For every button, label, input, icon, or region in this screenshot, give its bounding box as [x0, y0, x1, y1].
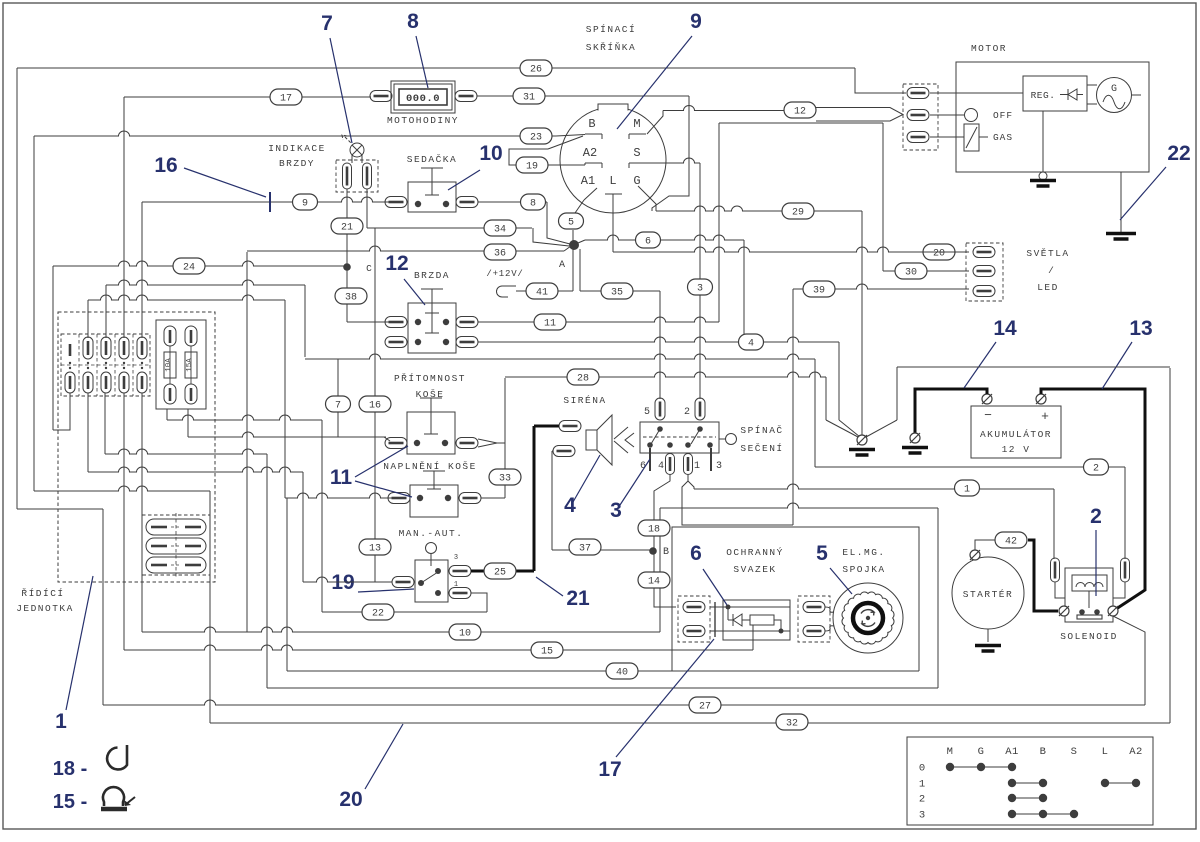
clutch label: [842, 547, 885, 575]
wire 3 label: [688, 279, 713, 295]
regulator box: [1023, 76, 1087, 111]
svg-text:/: /: [1048, 265, 1054, 276]
hour meter right connector: [455, 91, 477, 102]
ignition terminal B: [585, 117, 602, 139]
svg-text:32: 32: [786, 719, 798, 730]
svg-text:S: S: [1071, 746, 1078, 758]
wire 26 label: [520, 60, 552, 76]
wire y367: [866, 367, 1170, 437]
svg-text:1: 1: [964, 485, 970, 496]
svg-text:3: 3: [716, 461, 722, 472]
wire 2 horizontal: [815, 466, 1125, 468]
wire 11 horizontal: [478, 317, 719, 322]
svg-text:OCHRANNÝ: OCHRANNÝ: [726, 547, 784, 558]
wire 33 label: [489, 469, 521, 485]
wire 31 vertical x689: [652, 96, 689, 211]
svg-text:8: 8: [407, 10, 419, 33]
mow switch contacts: [647, 426, 713, 448]
wire 32 label: [776, 714, 808, 730]
wire 6 label: [636, 232, 661, 248]
svg-text:8: 8: [530, 199, 536, 210]
svg-text:A1: A1: [1005, 746, 1019, 758]
wire vertical x53: [52, 266, 54, 430]
svg-text:NAPLNĚNÍ KOŠE: NAPLNĚNÍ KOŠE: [383, 461, 477, 472]
wire 19 bracket: [509, 136, 583, 165]
wire 41 label: [526, 283, 558, 299]
wire 42 from starter: [975, 540, 995, 550]
wire y228 seat row: [367, 227, 532, 229]
svg-text:1: 1: [694, 461, 700, 472]
basket presence connector right: [456, 438, 478, 449]
svg-text:15: 15: [541, 647, 553, 658]
mow switch pin 5: [644, 398, 665, 420]
svg-text:6: 6: [690, 542, 702, 565]
callout 12: [385, 252, 425, 305]
svg-text:9: 9: [690, 10, 702, 33]
wire right vertical x1170: [1169, 368, 1171, 723]
svg-text:36: 36: [494, 249, 506, 260]
wire 2 right vertical: [1124, 467, 1126, 559]
svg-text:A2: A2: [1129, 746, 1143, 758]
wire 38 vertical: [346, 267, 348, 322]
svg-text:C: C: [366, 263, 372, 274]
mow switch pin 6: [640, 448, 650, 472]
wire 15 horizontal: [124, 645, 753, 650]
callout 7: [321, 12, 352, 143]
wire 10 horizontal: [142, 627, 660, 632]
wire 26 top bus: [17, 67, 855, 69]
wire 15 to resistor: [752, 625, 754, 650]
wire vertical x744: [743, 240, 745, 342]
svg-text:M: M: [947, 746, 954, 758]
basket full label: [383, 461, 477, 472]
svg-text:20: 20: [933, 249, 945, 260]
wire 21 vertical chain: [346, 202, 348, 267]
svg-text:24: 24: [183, 263, 195, 274]
wire vertical fuse col4 down: [123, 393, 125, 650]
clutch connector pin 1: [803, 602, 825, 613]
wire 2 label: [1084, 459, 1109, 475]
connector block dashed box: [61, 334, 150, 396]
svg-text:38: 38: [345, 293, 357, 304]
svg-text:SKŘÍŇKA: SKŘÍŇKA: [586, 42, 636, 53]
svg-text:35: 35: [611, 288, 623, 299]
wire 28 horizontal: [505, 372, 826, 377]
wire 1 horizontal: [694, 484, 1054, 489]
wire vertical x287: [286, 498, 288, 671]
harness resistor: [710, 615, 784, 634]
mow switch label: [740, 425, 783, 454]
mow switch pin 4: [658, 454, 675, 475]
wire 8 horizontal: [478, 201, 547, 203]
svg-text:21: 21: [341, 223, 353, 234]
svg-text:BRZDY: BRZDY: [279, 158, 315, 169]
svg-text:SIRÉNA: SIRÉNA: [563, 395, 606, 406]
wire 28 ground drop: [826, 377, 858, 437]
callout 14: [964, 317, 1017, 388]
motor connector dashed box: [903, 84, 938, 150]
svg-text:3: 3: [919, 810, 925, 822]
wire 36 label: [484, 244, 516, 260]
svg-text:28: 28: [577, 374, 589, 385]
svg-text:3: 3: [697, 284, 703, 295]
starter circle: [952, 557, 1024, 629]
starter bolt: [970, 550, 980, 560]
svg-text:7: 7: [335, 401, 341, 412]
wire 32 feed: [34, 486, 210, 723]
svg-text:SVĚTLA: SVĚTLA: [1026, 248, 1069, 259]
mow switch pin 3: [711, 448, 722, 472]
svg-text:000.0: 000.0: [406, 93, 440, 105]
wire y123: [719, 122, 883, 124]
solenoid bolt right: [1108, 606, 1118, 616]
svg-text:18: 18: [648, 525, 660, 536]
svg-text:G: G: [978, 746, 985, 758]
wire regulator ground: [1042, 111, 1044, 172]
wire vertical x719: [718, 123, 720, 322]
control unit label: [16, 588, 74, 614]
harness connector pin 1: [683, 602, 705, 613]
wire 24 label: [173, 258, 205, 274]
svg-text:14: 14: [648, 577, 660, 588]
brake switch label: [414, 270, 450, 281]
svg-text:5: 5: [644, 407, 650, 418]
wire gas: [930, 136, 964, 138]
svg-text:22: 22: [1167, 142, 1190, 165]
legend junction symbol: [53, 787, 135, 813]
wire 15 label: [531, 642, 563, 658]
wire 28 label: [567, 369, 599, 385]
clutch arrows: [861, 610, 875, 627]
svg-text:21: 21: [566, 587, 590, 610]
svg-text:EL.MG.: EL.MG.: [842, 547, 885, 558]
wire regulator to generator: [1087, 85, 1141, 104]
wire 29 label: [782, 203, 814, 219]
solenoid bolt left: [1059, 606, 1069, 616]
harness connector dashed box: [678, 596, 710, 642]
svg-text:4: 4: [748, 339, 754, 350]
node B junction: [649, 547, 669, 558]
wire S horizontal: [646, 158, 700, 163]
callout 6: [690, 542, 727, 605]
svg-text:37: 37: [579, 544, 591, 555]
harness label: [726, 547, 784, 575]
svg-text:/+12V/: /+12V/: [486, 269, 523, 279]
harness diode: [710, 605, 742, 627]
wire siren lower: [552, 451, 553, 550]
wire motor to ground 22: [1120, 172, 1122, 232]
wire y688 bus: [267, 687, 938, 689]
wire 34 label: [484, 220, 516, 236]
ignition terminal G: [633, 174, 650, 198]
svg-text:23: 23: [530, 133, 542, 144]
control unit dashed box: [58, 312, 215, 582]
solenoid coil box: [1072, 575, 1107, 591]
basket presence switch: [407, 398, 455, 454]
lamp terminal left: [343, 163, 352, 189]
svg-text:SEČENÍ: SEČENÍ: [740, 443, 783, 454]
wire 19 label: [516, 157, 548, 173]
svg-text:MOTOR: MOTOR: [971, 43, 1007, 54]
callout 13: [1102, 317, 1153, 389]
wire 9 horizontal: [142, 197, 396, 202]
wire vertical x285: [284, 300, 286, 498]
wire 35 label: [601, 283, 660, 299]
ignition terminal M: [629, 117, 646, 139]
svg-text:−: −: [984, 408, 992, 423]
callout 21: [536, 577, 590, 610]
ground battery minus: [902, 433, 928, 453]
solenoid box: [1065, 568, 1113, 622]
man-aut label: [399, 528, 464, 539]
brake connector left lower: [385, 337, 407, 348]
callout 9: [617, 10, 702, 129]
svg-text:SEDAČKA: SEDAČKA: [407, 154, 457, 165]
wire M diagonal: [647, 111, 663, 135]
wire y300 bus: [88, 295, 285, 300]
clutch circles: [833, 583, 903, 653]
harness connector pin 2: [683, 626, 705, 637]
svg-text:16: 16: [154, 154, 177, 177]
svg-text:33: 33: [499, 474, 511, 485]
svg-text:31: 31: [523, 93, 535, 104]
callout 5: [816, 542, 852, 594]
wire col1 link: [53, 393, 70, 430]
wire vertical x88 upper: [87, 300, 89, 338]
svg-text:5: 5: [568, 218, 574, 229]
wire 9 label: [293, 194, 318, 210]
lights connector pin 1: [973, 247, 995, 258]
wire vertical col3 upper: [104, 393, 106, 454]
svg-text:B: B: [663, 547, 669, 558]
wire 14 to harness: [654, 588, 676, 607]
lamp terminal right: [363, 163, 372, 189]
brake indicator label: [268, 143, 326, 169]
svg-text:22: 22: [372, 609, 384, 620]
callout 16: [154, 154, 270, 212]
svg-text:2: 2: [1090, 505, 1102, 528]
svg-text:PŘÍTOMNOST: PŘÍTOMNOST: [394, 373, 466, 384]
ignition switch circle: [560, 109, 666, 213]
ignition terminal A1: [581, 174, 597, 200]
wire 20 horizontal: [613, 247, 969, 252]
motor connector pin 1: [907, 88, 929, 99]
svg-text:M: M: [633, 117, 640, 131]
lamp dashed box: [336, 160, 378, 192]
basket full connector right: [459, 493, 481, 504]
callout 8: [407, 10, 428, 88]
ignition terminal S: [629, 146, 646, 168]
man-aut connector 1: [449, 581, 471, 599]
wire 30 vertical x883: [882, 123, 884, 271]
wire node B down: [653, 551, 655, 572]
wire 7 label: [326, 396, 351, 412]
gas switch box: [964, 124, 1013, 151]
wire 3 vertical: [699, 163, 701, 399]
svg-text:9: 9: [302, 199, 308, 210]
mow switch pin 1: [684, 454, 701, 475]
wire 5 vertical: [572, 230, 574, 245]
svg-text:AKUMULÁTOR: AKUMULÁTOR: [980, 429, 1052, 440]
off switch circle: [965, 109, 1014, 122]
svg-text:MOTOHODINY: MOTOHODINY: [387, 115, 459, 126]
svg-text:29: 29: [792, 208, 804, 219]
wire vertical x142 to fuse: [141, 202, 143, 338]
wire L vertical: [612, 194, 614, 252]
wire y420 from fuse 10A: [167, 415, 322, 420]
wire 23 label: [520, 128, 552, 144]
hour meter left connector: [370, 91, 392, 102]
wire 28 chevron: [478, 439, 505, 447]
wire siren thick: [534, 425, 559, 428]
svg-text:B: B: [1040, 746, 1047, 758]
wire 17 label: [270, 89, 302, 105]
siren connector upper: [559, 421, 581, 432]
wire 13 label: [359, 539, 391, 555]
wire vertical fuse15A x188: [187, 409, 189, 437]
wire vertical x338 via label 7: [337, 359, 339, 437]
svg-text:12: 12: [794, 107, 806, 118]
siren connector lower: [553, 446, 575, 457]
wire 20 label: [923, 244, 955, 260]
wire solenoid right down: [1113, 616, 1145, 705]
solenoid connector right: [1113, 558, 1130, 598]
motor box: [956, 62, 1149, 172]
man-aut connector 3: [449, 554, 471, 577]
wire y454 bus: [105, 449, 267, 454]
wire pin1 down: [688, 475, 694, 489]
clutch feed wires: [825, 607, 834, 631]
wire 29 down to ground: [861, 211, 863, 438]
harness connector tick: [714, 602, 716, 637]
ignition position table: [907, 737, 1153, 825]
callout 2: [1090, 505, 1102, 596]
wire 33 elbow: [481, 497, 505, 499]
callout 17: [598, 639, 714, 781]
svg-text:2: 2: [1093, 464, 1099, 475]
solenoid connector left: [1051, 558, 1066, 598]
wire 10 label: [449, 624, 481, 640]
seat connector left: [385, 197, 407, 208]
wire 39 horizontal: [834, 284, 969, 289]
wire 8 elbow to node A: [547, 202, 570, 244]
wire 32 horizontal: [210, 722, 1170, 724]
wire 12 label: [784, 102, 816, 118]
wire 37 horizontal: [552, 549, 650, 551]
svg-text:1: 1: [919, 779, 925, 791]
ignition switch tab: [598, 104, 628, 111]
battery minus bolt: [982, 394, 992, 404]
connector pin pairs: [61, 334, 150, 396]
hour meter display: [399, 89, 447, 105]
svg-text:SPÍNACÍ: SPÍNACÍ: [586, 24, 636, 35]
wire man-aut feed: [303, 472, 392, 582]
inner enclosure box: [672, 527, 919, 671]
wire 17 horizontal: [124, 96, 371, 98]
callout 19: [331, 571, 414, 594]
lights connector pin 3: [973, 286, 995, 297]
svg-text:0: 0: [919, 763, 925, 775]
funnel ground wires: [861, 420, 863, 434]
wire vertical fuse10A x167: [166, 409, 168, 420]
clutch gear ring: [842, 592, 894, 644]
wire 38 to brake switch: [347, 321, 396, 323]
wire 22 label: [362, 604, 394, 620]
svg-text:34: 34: [494, 225, 506, 236]
svg-text:OFF: OFF: [993, 110, 1013, 121]
brake connector right lower: [456, 337, 478, 348]
wire vertical x267: [266, 454, 268, 688]
svg-text:3: 3: [454, 554, 458, 562]
wire vertical col2 lower: [87, 393, 89, 472]
svg-text:17: 17: [598, 758, 621, 781]
wire 31 label: [513, 88, 545, 104]
wire 4 down to ground: [839, 342, 860, 437]
svg-text:1: 1: [55, 710, 67, 733]
callout 11: [330, 446, 412, 497]
wire 30 horizontal: [883, 270, 969, 272]
svg-text:12: 12: [385, 252, 408, 275]
svg-text:26: 26: [530, 65, 542, 76]
svg-text:SOLENOID: SOLENOID: [1060, 631, 1118, 642]
svg-text:13: 13: [369, 544, 381, 555]
wire 6 horizontal: [578, 235, 744, 243]
wire 4 horizontal: [478, 337, 839, 342]
wire 5 from A1: [575, 200, 584, 213]
wire 11 label: [534, 314, 566, 330]
svg-text:SPÍNAČ: SPÍNAČ: [740, 425, 783, 436]
hour meter outer box: [391, 81, 455, 113]
clutch connector dashed box: [798, 596, 830, 642]
seat connector right: [456, 197, 478, 208]
wire 22 elbow: [471, 593, 487, 612]
wire 41 horizontal: [516, 290, 573, 292]
wire left vertical x34: [33, 136, 35, 491]
svg-text:11: 11: [330, 466, 353, 489]
man-aut knob: [426, 543, 437, 567]
svg-text:A2: A2: [583, 146, 597, 160]
wire 4 label: [739, 334, 764, 350]
wire y498 to basket switch: [285, 493, 396, 498]
wire 40 label: [606, 663, 638, 679]
wire 1 label: [955, 480, 980, 496]
svg-text:40: 40: [616, 668, 628, 679]
wire y359 bus: [305, 354, 815, 359]
node C junction: [343, 263, 372, 274]
svg-text:14: 14: [993, 317, 1017, 340]
harness box: [723, 600, 790, 640]
ignition terminal A2: [583, 146, 602, 168]
seat switch label: [407, 154, 457, 165]
brake connector right upper: [456, 317, 478, 328]
svg-text:19: 19: [526, 162, 538, 173]
callout 4: [564, 455, 600, 517]
node A junction: [559, 240, 579, 271]
svg-text:12 V: 12 V: [1002, 444, 1031, 455]
svg-text:B: B: [588, 117, 595, 131]
regulator label: [1031, 90, 1056, 101]
wire 18 to node B: [653, 536, 655, 551]
wire 37 label: [569, 539, 601, 555]
lamp wires: [347, 155, 367, 228]
wire 34 elbow to node A: [533, 228, 569, 246]
svg-text:ŘÍDÍCÍ: ŘÍDÍCÍ: [21, 588, 64, 599]
wire 39 vertical x793: [793, 289, 804, 525]
svg-text:INDIKACE: INDIKACE: [268, 143, 326, 154]
man-aut box: [415, 560, 448, 602]
wire 30 label: [895, 263, 927, 279]
wire vertical x106 upper: [105, 285, 107, 338]
